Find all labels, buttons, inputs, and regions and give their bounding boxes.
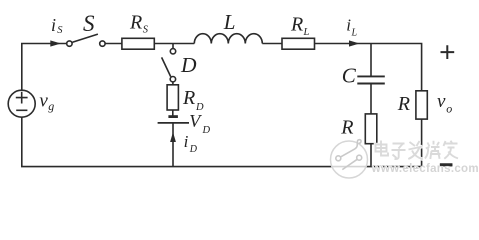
- svg-text:V: V: [189, 111, 202, 131]
- svg-text:D: D: [180, 53, 197, 77]
- label R_D: [182, 87, 204, 113]
- wire: [315, 44, 422, 91]
- battery V_D: [158, 110, 189, 123]
- svg-text:S: S: [57, 25, 63, 36]
- resistor R_S: [122, 38, 154, 49]
- resistor R_D: [167, 82, 178, 110]
- svg-text:L: L: [303, 27, 310, 38]
- switch D (ideal diode): [162, 44, 176, 82]
- label v_O: [437, 91, 452, 116]
- label i_S: [51, 15, 63, 36]
- svg-text:R: R: [129, 12, 142, 34]
- wire: [421, 119, 423, 167]
- svg-text:R: R: [397, 93, 410, 115]
- polarity minus: [440, 164, 453, 167]
- label R_L: [290, 14, 310, 39]
- wire: [172, 123, 174, 167]
- label V_D: [189, 111, 210, 136]
- label R_S: [129, 12, 149, 36]
- svg-text:g: g: [48, 99, 54, 113]
- svg-text:R: R: [182, 87, 195, 109]
- svg-text:o: o: [446, 102, 452, 116]
- resistor R load: [416, 91, 427, 119]
- svg-text:L: L: [223, 10, 236, 34]
- svg-text:i: i: [51, 15, 56, 35]
- wire: [105, 43, 122, 45]
- current arrow i_L: [349, 40, 360, 46]
- current arrow i_S: [50, 40, 61, 46]
- svg-text:D: D: [202, 125, 211, 136]
- label i_L: [346, 16, 357, 39]
- svg-text:v: v: [437, 91, 446, 112]
- capacitor C: [357, 44, 385, 114]
- label v_g: [39, 90, 54, 113]
- svg-text:D: D: [189, 144, 198, 155]
- switch S: [67, 34, 105, 46]
- svg-text:S: S: [143, 25, 149, 36]
- svg-text:C: C: [342, 64, 357, 88]
- svg-text:R: R: [340, 117, 353, 139]
- inductor L: [194, 34, 262, 44]
- voltage source v_g: [8, 90, 35, 117]
- svg-text:i: i: [346, 16, 351, 35]
- resistor R esr: [365, 114, 377, 167]
- svg-text:R: R: [290, 14, 303, 36]
- wire: [262, 43, 282, 45]
- svg-text:L: L: [351, 28, 358, 39]
- wire: [154, 43, 194, 45]
- resistor R_L: [282, 38, 315, 49]
- polarity plus: [441, 45, 455, 59]
- wire: [22, 44, 67, 91]
- label i_D: [184, 132, 198, 155]
- current arrow i_D: [170, 132, 176, 142]
- svg-text:S: S: [83, 11, 95, 36]
- svg-text:v: v: [39, 90, 48, 111]
- wire: [22, 117, 422, 167]
- svg-text:i: i: [184, 132, 189, 151]
